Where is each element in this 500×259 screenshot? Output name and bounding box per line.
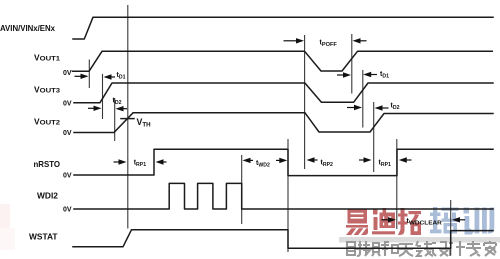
svg-text:0V: 0V	[63, 70, 72, 77]
svg-text:VOUT3: VOUT3	[34, 85, 60, 95]
svg-text:tD1: tD1	[380, 71, 389, 80]
svg-text:0V: 0V	[63, 100, 72, 107]
svg-text:AVIN/VINx/ENx: AVIN/VINx/ENx	[0, 23, 55, 33]
svg-text:tD2: tD2	[113, 98, 122, 107]
svg-text:VOUT2: VOUT2	[34, 117, 60, 127]
svg-text:tRP1: tRP1	[134, 160, 147, 169]
svg-text:tRP1: tRP1	[379, 160, 392, 169]
svg-text:tPOFF: tPOFF	[320, 39, 338, 48]
svg-text:VTH: VTH	[137, 117, 152, 129]
svg-text:0V: 0V	[63, 130, 72, 137]
svg-text:0V: 0V	[63, 173, 72, 180]
svg-text:tD2: tD2	[391, 103, 400, 112]
svg-text:tD1: tD1	[117, 72, 126, 81]
svg-text:VOUT1: VOUT1	[34, 53, 60, 63]
svg-text:0V: 0V	[63, 207, 72, 214]
svg-text:nRSTO: nRSTO	[34, 159, 61, 169]
svg-text:WSTAT: WSTAT	[29, 232, 58, 242]
svg-text:tWD2: tWD2	[256, 160, 270, 169]
svg-text:WDI2: WDI2	[37, 190, 58, 200]
svg-text:tRP2: tRP2	[321, 160, 334, 169]
